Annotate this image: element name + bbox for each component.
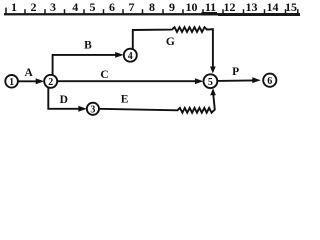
svg-text:4: 4 (128, 51, 133, 62)
svg-text:B: B (84, 39, 92, 51)
svg-text:11: 11 (205, 0, 216, 14)
svg-text:2: 2 (48, 77, 53, 88)
svg-text:C: C (100, 69, 108, 81)
svg-text:G: G (166, 36, 175, 48)
svg-text:5: 5 (208, 77, 213, 88)
svg-text:2: 2 (31, 0, 37, 14)
svg-text:8: 8 (149, 0, 155, 14)
svg-text:D: D (60, 94, 68, 106)
svg-text:4: 4 (72, 0, 78, 14)
svg-text:7: 7 (129, 0, 135, 14)
svg-text:A: A (24, 67, 33, 79)
svg-text:P: P (232, 66, 239, 78)
svg-text:E: E (121, 93, 129, 105)
svg-text:6: 6 (267, 76, 272, 87)
svg-text:5: 5 (90, 0, 96, 14)
svg-text:10: 10 (186, 0, 198, 14)
svg-text:12: 12 (224, 0, 236, 14)
svg-text:3: 3 (50, 0, 56, 14)
svg-text:1: 1 (11, 0, 17, 14)
svg-text:13: 13 (246, 0, 258, 14)
svg-text:1: 1 (9, 77, 14, 88)
svg-text:14: 14 (267, 0, 279, 14)
svg-text:3: 3 (90, 104, 95, 115)
svg-text:9: 9 (169, 0, 175, 14)
svg-text:15: 15 (285, 0, 297, 14)
svg-text:6: 6 (109, 0, 115, 14)
